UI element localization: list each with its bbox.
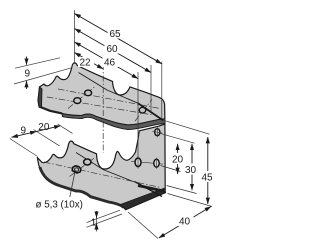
svg-text:20: 20 (38, 122, 50, 133)
svg-text:45: 45 (202, 173, 214, 184)
svg-text:1: 1 (91, 217, 97, 228)
svg-text:60: 60 (107, 44, 119, 55)
svg-text:9: 9 (25, 69, 31, 80)
svg-text:40: 40 (179, 216, 191, 227)
svg-text:9: 9 (21, 126, 27, 137)
svg-text:65: 65 (110, 29, 122, 40)
svg-text:20: 20 (172, 155, 184, 166)
svg-text:ø 5,3 (10x): ø 5,3 (10x) (36, 200, 83, 211)
svg-text:30: 30 (185, 165, 197, 176)
svg-text:22: 22 (80, 58, 92, 69)
svg-text:46: 46 (104, 58, 116, 69)
